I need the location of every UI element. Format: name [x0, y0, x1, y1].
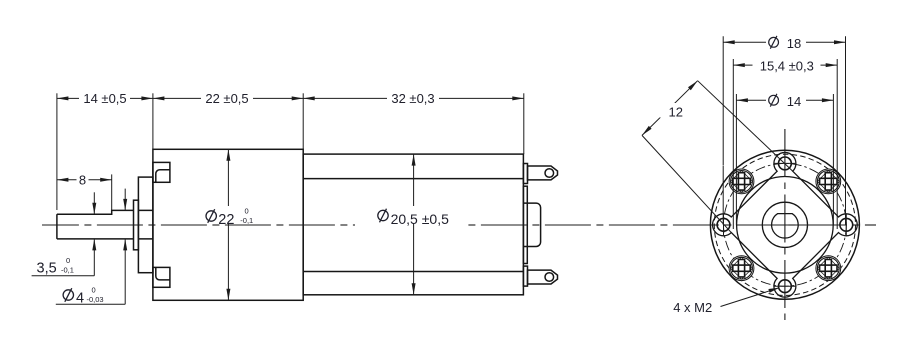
svg-text:12: 12	[669, 105, 683, 120]
svg-text:20,5 ±0,5: 20,5 ±0,5	[391, 211, 449, 227]
svg-text:-0,03: -0,03	[87, 295, 104, 304]
svg-text:-0,1: -0,1	[61, 265, 74, 274]
svg-text:-0,1: -0,1	[240, 216, 253, 225]
svg-text:22 ±0,5: 22 ±0,5	[205, 91, 248, 106]
svg-text:15,4 ±0,3: 15,4 ±0,3	[760, 58, 814, 73]
svg-text:4: 4	[76, 290, 84, 306]
svg-text:4 x M2: 4 x M2	[673, 300, 712, 315]
svg-text:14: 14	[787, 94, 801, 109]
svg-text:14 ±0,5: 14 ±0,5	[83, 91, 126, 106]
svg-text:32 ±0,3: 32 ±0,3	[391, 91, 434, 106]
svg-text:22: 22	[218, 212, 234, 228]
svg-text:18: 18	[787, 36, 801, 51]
svg-text:8: 8	[79, 172, 86, 187]
svg-text:0: 0	[66, 256, 70, 265]
svg-text:0: 0	[92, 286, 96, 295]
svg-text:0: 0	[245, 207, 249, 216]
svg-text:3,5: 3,5	[37, 261, 57, 277]
